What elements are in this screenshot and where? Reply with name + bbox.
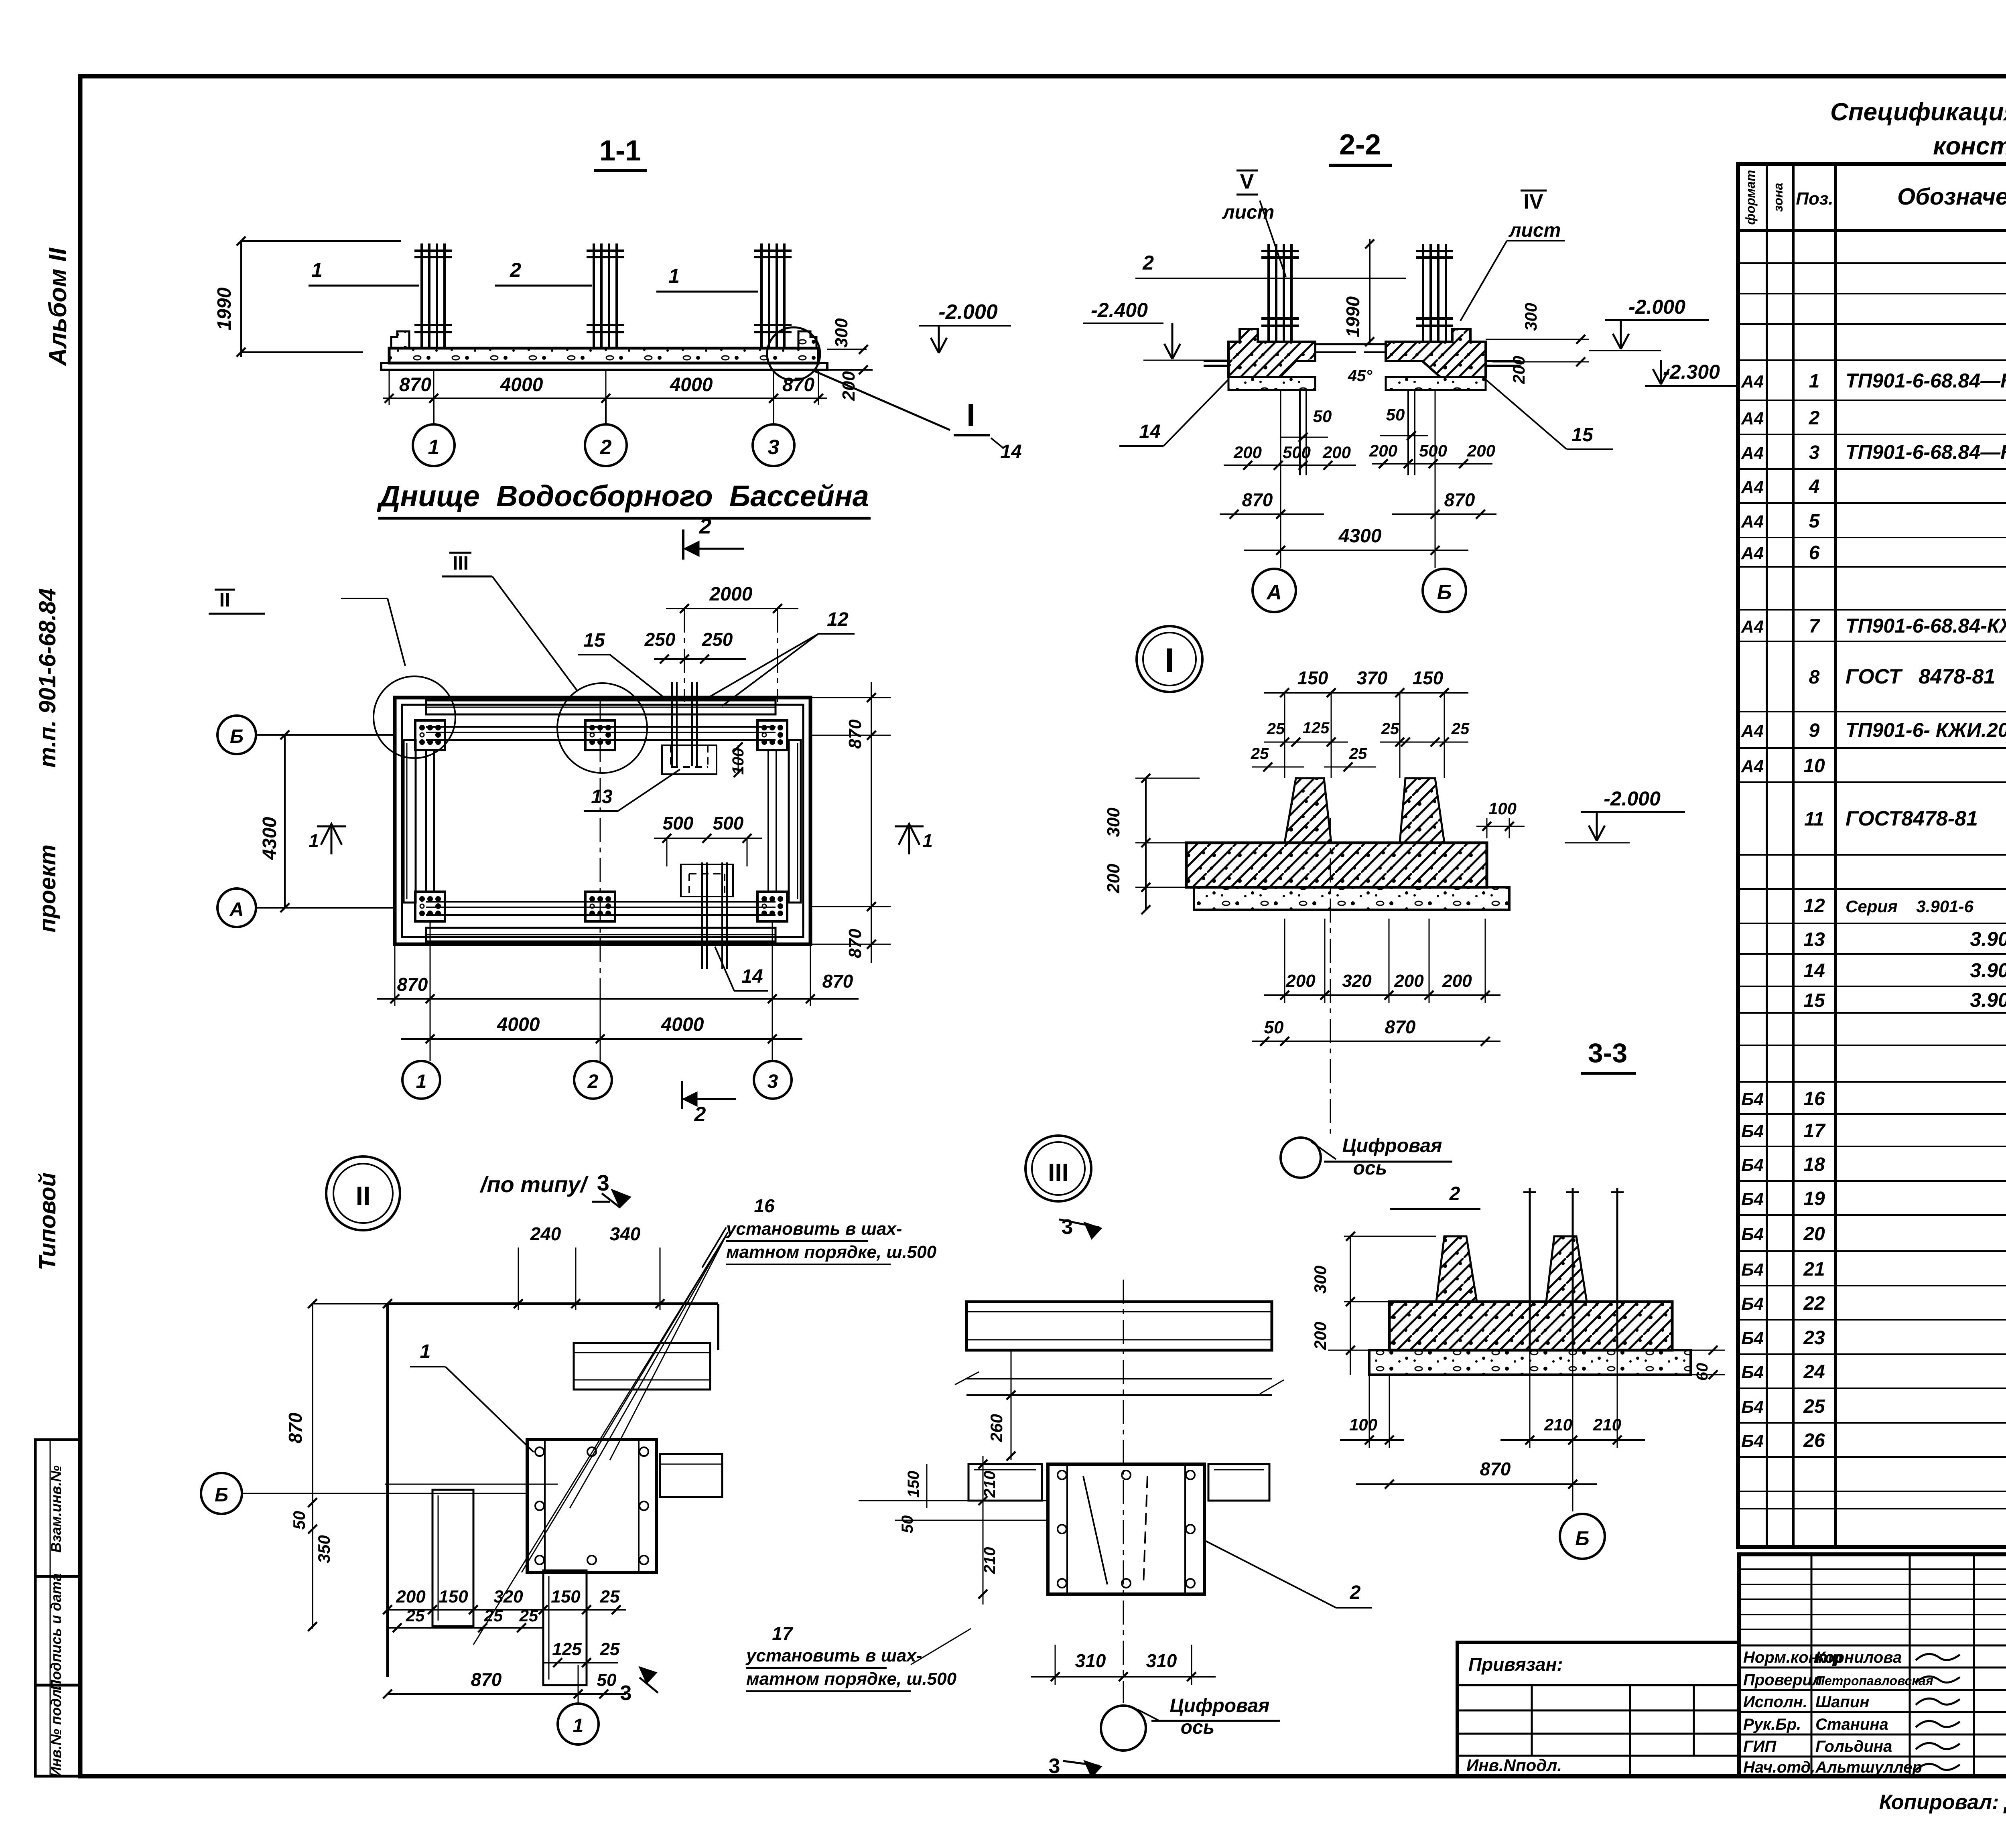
svg-text:А4: А4 (1741, 512, 1764, 531)
svg-text:18: 18 (1803, 1154, 1825, 1175)
plan pad axis1-A (415, 892, 445, 921)
plan patrubok bottom dashed box (681, 864, 733, 897)
detail II column square (527, 1440, 656, 1572)
svg-text:320: 320 (1342, 971, 1372, 991)
section 2-2 anchor dowels left (1299, 390, 1301, 475)
svg-text:13: 13 (591, 786, 613, 807)
svg-text:ТП901-6- КЖИ.2010-01: ТП901-6- КЖИ.2010-01 (1846, 719, 2006, 741)
svg-text:установить в шах-: установить в шах- (725, 1219, 902, 1239)
svg-text:9: 9 (1809, 720, 1820, 741)
svg-text:проект: проект (35, 844, 61, 933)
rsec right trapezoid (1546, 1236, 1587, 1302)
svg-text:Обозначение: Обозначение (1897, 184, 2006, 210)
svg-text:А4: А4 (1741, 757, 1764, 776)
svg-text:ТП901-6-68.84—КЖИ.2100: ТП901-6-68.84—КЖИ.2100 (1846, 369, 2006, 392)
svg-text:10: 10 (1803, 755, 1825, 777)
plan section arrows 1 (321, 824, 342, 845)
svg-text:3.901-6: 3.901-6 (1970, 928, 2006, 950)
potipu bottom dims 310 310 (1031, 1676, 1216, 1678)
svg-text:12: 12 (827, 609, 849, 630)
section 1-1 axis circle 3 (773, 398, 774, 424)
svg-text:370: 370 (1357, 667, 1388, 688)
detail II axis circle 1 (578, 1665, 579, 1703)
svg-text:210: 210 (1544, 1415, 1572, 1434)
svg-text:12: 12 (1803, 895, 1825, 917)
svg-text:1: 1 (309, 830, 319, 851)
plan right wall slot (789, 740, 801, 903)
svg-text:6: 6 (1809, 542, 1820, 564)
svg-text:21: 21 (1803, 1259, 1825, 1280)
rsec left dims 300 200 (1344, 1236, 1436, 1237)
svg-text:Цифровая: Цифровая (1170, 1695, 1270, 1716)
svg-text:А: А (229, 899, 244, 920)
svg-text:Б4: Б4 (1741, 1225, 1764, 1244)
svg-text:I: I (1165, 641, 1174, 680)
svg-text:Днище Водосборного Бассейна: Днище Водосборного Бассейна (376, 479, 869, 513)
plan patrubok bottom pipes (701, 862, 703, 969)
detail I left dims 300 200 (1135, 778, 1200, 779)
plan patrubok axis dashdot (684, 609, 685, 702)
section 2-2 rebar cluster B (1422, 244, 1424, 342)
detail I dim 50 870 (1252, 1041, 1500, 1042)
potipu wall band (966, 1302, 1272, 1350)
svg-text:1: 1 (573, 1715, 584, 1736)
section 1-1 base plate (381, 363, 827, 370)
svg-text:ГОСТ 8478-81: ГОСТ 8478-81 (1846, 665, 1995, 688)
svg-text:Станина: Станина (1815, 1716, 1888, 1733)
svg-text:150: 150 (1297, 667, 1328, 688)
svg-text:4: 4 (1809, 476, 1820, 497)
spec table header row (1738, 229, 2006, 232)
svg-text:1: 1 (420, 1341, 431, 1362)
svg-text:3: 3 (1049, 1755, 1060, 1778)
detail II top dim line (313, 1303, 718, 1304)
svg-text:1: 1 (922, 830, 933, 851)
svg-text:2: 2 (1142, 252, 1154, 274)
section 2-2 connecting slab lines (1315, 343, 1386, 345)
svg-text:ТП901-6-68.84—КЖИ-2200: ТП901-6-68.84—КЖИ-2200 (1846, 441, 2006, 463)
section 1-1 detail circle I (767, 327, 820, 380)
detail II bar leader fan (473, 1232, 728, 1645)
svg-text:200: 200 (1467, 441, 1495, 460)
svg-text:125: 125 (1303, 719, 1330, 737)
plan outer rect (395, 698, 810, 944)
svg-text:870: 870 (822, 971, 853, 992)
svg-text:Исполн.: Исполн. (1743, 1693, 1807, 1711)
svg-text:Б: Б (1437, 581, 1452, 604)
svg-text:310: 310 (1146, 1650, 1177, 1671)
svg-text:870: 870 (845, 929, 865, 958)
svg-text:А: А (1266, 581, 1282, 604)
svg-text:870: 870 (471, 1669, 502, 1690)
svg-text:25: 25 (600, 1587, 620, 1607)
svg-text:Нач.отд.: Нач.отд. (1743, 1759, 1815, 1776)
svg-text:17: 17 (1803, 1120, 1826, 1142)
svg-text:Б: Б (215, 1485, 228, 1506)
svg-text:Б4: Б4 (1741, 1329, 1764, 1348)
svg-text:Инв.Nподл.: Инв.Nподл. (1466, 1756, 1562, 1775)
svg-text:25: 25 (1803, 1396, 1825, 1417)
svg-text:3.901-6: 3.901-6 (1970, 959, 2006, 982)
svg-text:870: 870 (1444, 489, 1475, 510)
svg-text:4300: 4300 (1338, 525, 1382, 547)
detail II left dim 870 (312, 1304, 313, 1629)
spec table column lines (1766, 164, 1768, 1547)
section 1-1 right curb (798, 331, 816, 348)
svg-text:200: 200 (1104, 864, 1123, 894)
detail I center line (1330, 818, 1331, 1139)
svg-text:240: 240 (530, 1223, 561, 1244)
svg-text:50: 50 (1264, 1018, 1284, 1037)
svg-text:Б4: Б4 (1741, 1089, 1764, 1109)
svg-text:870: 870 (782, 374, 814, 396)
svg-text:зона: зона (1771, 183, 1785, 212)
svg-text:250: 250 (644, 629, 676, 650)
svg-text:100: 100 (1488, 799, 1517, 818)
svg-text:-2.300: -2.300 (1663, 361, 1720, 383)
svg-text:Б4: Б4 (1741, 1431, 1764, 1451)
potipu lower band (966, 1378, 1272, 1379)
svg-text:1: 1 (668, 265, 680, 287)
svg-text:200: 200 (1442, 971, 1472, 991)
spec table row lines (1738, 262, 2006, 264)
section 2-2 dim 1990 (1369, 239, 1370, 345)
svg-text:1: 1 (428, 436, 440, 459)
section 2-2 axis circle A (1280, 390, 1281, 568)
svg-text:Цифровая: Цифровая (1342, 1135, 1442, 1156)
svg-text:-2.400: -2.400 (1091, 299, 1148, 321)
detail II bottom dim 870 50 (388, 1693, 626, 1695)
section 1-1 slab (389, 348, 818, 363)
detail II wall corner outline (386, 1304, 389, 1677)
svg-text:14: 14 (1803, 960, 1825, 982)
rsec dims 100 210 210 (1340, 1439, 1404, 1441)
svg-text:Корнилова: Корнилова (1815, 1649, 1902, 1666)
plan big circle top-middle (557, 683, 647, 773)
plan pad axis2-A (585, 892, 615, 921)
section 2-2 dims 200 500 200 (1224, 465, 1356, 466)
svg-text:300: 300 (832, 318, 851, 348)
svg-text:Копировал: Доценко: Копировал: Доценко (1879, 1791, 2006, 1814)
plan column lines axis3 (767, 751, 769, 891)
title block signatures scribbles (1916, 1654, 1960, 1660)
svg-text:4300: 4300 (259, 817, 280, 860)
section 2-2 right foundation block (1386, 329, 1486, 377)
svg-text:III: III (453, 553, 469, 574)
svg-text:IV: IV (1523, 190, 1543, 213)
svg-text:200: 200 (1233, 443, 1262, 462)
plan bottom beam rect (426, 928, 776, 941)
svg-text:870: 870 (285, 1412, 306, 1443)
svg-text:2: 2 (1449, 1183, 1460, 1205)
svg-text:т.п. 901-6-68.84: т.п. 901-6-68.84 (35, 588, 61, 767)
svg-text:II: II (219, 590, 230, 611)
svg-text:2: 2 (600, 436, 612, 459)
svg-text:4000: 4000 (497, 1014, 540, 1035)
svg-text:50: 50 (1386, 405, 1405, 424)
svg-text:Альбом II: Альбом II (44, 247, 72, 367)
section 2-2 axis circle B (1435, 390, 1436, 568)
svg-text:А4: А4 (1741, 372, 1764, 392)
svg-text:200: 200 (1369, 441, 1397, 460)
svg-text:Б: Б (230, 726, 244, 747)
svg-text:200: 200 (396, 1587, 426, 1607)
svg-text:11: 11 (1804, 809, 1824, 830)
detail II beam band right (574, 1343, 710, 1390)
plan inner rect (402, 705, 803, 937)
detail I subbase (1194, 887, 1509, 910)
plan beam lines row B (426, 726, 776, 728)
section 1-1 left curb (391, 331, 409, 348)
title block left mini rows (1739, 1568, 2006, 1570)
svg-text:2: 2 (510, 259, 521, 281)
svg-text:Петропавловская: Петропавловская (1815, 1674, 1933, 1688)
plan bottom dim 870/4000/4000/870 (377, 998, 859, 1000)
svg-text:2: 2 (1809, 408, 1820, 429)
plan dims 500 500 (654, 838, 762, 839)
svg-text:500: 500 (1283, 443, 1311, 462)
detail II axis B line (242, 1493, 526, 1494)
svg-text:50: 50 (290, 1511, 309, 1530)
svg-text:Б4: Б4 (1741, 1122, 1764, 1141)
svg-text:15: 15 (1803, 990, 1825, 1011)
svg-text:4000: 4000 (661, 1014, 704, 1035)
svg-text:А4: А4 (1741, 617, 1764, 637)
plan big circle top-left (374, 676, 455, 758)
svg-text:конструкции днища.: конструкции днища. (1933, 132, 2006, 160)
svg-text:Типовой: Типовой (35, 1172, 61, 1270)
svg-text:14: 14 (1139, 421, 1160, 442)
title block outer (1739, 1554, 2006, 1776)
plan patrubok top pipes (671, 682, 673, 766)
svg-text:лист: лист (1509, 220, 1561, 241)
detail I bottom dims (1264, 994, 1500, 996)
svg-text:3: 3 (1062, 1215, 1073, 1239)
svg-text:300: 300 (1311, 1266, 1330, 1294)
svg-text:2000: 2000 (709, 584, 753, 605)
svg-text:22: 22 (1803, 1293, 1825, 1314)
detail I circle (1137, 626, 1202, 692)
plan pad axis3-A (757, 892, 787, 921)
svg-text:210: 210 (981, 1547, 999, 1574)
svg-text:870: 870 (1242, 489, 1273, 510)
svg-text:200: 200 (1509, 356, 1528, 384)
potipu column square (1048, 1464, 1204, 1594)
detail III circle marker (1025, 1136, 1091, 1201)
title block signature rows (1739, 1645, 2006, 1647)
svg-text:300: 300 (1104, 807, 1123, 837)
svg-text:25: 25 (1381, 720, 1399, 738)
svg-text:26: 26 (1803, 1430, 1825, 1451)
plan pad axis2-B (585, 720, 615, 750)
svg-text:ТП901-6-68.84-КЖИ.2010: ТП901-6-68.84-КЖИ.2010 (1846, 615, 2006, 637)
section 1-1 bottom dim line (383, 398, 827, 399)
svg-text:150: 150 (439, 1587, 468, 1607)
svg-text:3: 3 (767, 1071, 778, 1092)
detail I small dims 25 125 (1264, 742, 1348, 743)
svg-text:4000: 4000 (670, 374, 713, 396)
svg-text:50: 50 (1313, 407, 1332, 426)
svg-text:23: 23 (1803, 1327, 1825, 1349)
svg-text:3: 3 (1809, 442, 1820, 463)
rsec rebars (1529, 1188, 1531, 1350)
svg-text:870: 870 (399, 374, 431, 396)
svg-text:340: 340 (610, 1223, 641, 1244)
svg-text:матном порядке, ш.500: матном порядке, ш.500 (746, 1669, 957, 1689)
svg-text:III: III (1048, 1159, 1069, 1187)
svg-text:7: 7 (1809, 616, 1821, 637)
svg-text:1990: 1990 (1342, 296, 1363, 337)
plan pad axis3-B (757, 720, 787, 750)
svg-text:3: 3 (768, 436, 780, 459)
svg-text:3: 3 (620, 1682, 632, 1705)
svg-text:/по типу/: /по типу/ (479, 1172, 589, 1197)
plan left wall slot (404, 740, 416, 903)
svg-text:25: 25 (1251, 745, 1269, 763)
svg-text:3-3: 3-3 (1588, 1038, 1627, 1068)
svg-text:16: 16 (1803, 1088, 1825, 1110)
plan right dim 870 870 (871, 682, 872, 963)
svg-text:500: 500 (663, 813, 694, 834)
section 2-2 anchor dowels right (1407, 390, 1409, 475)
svg-text:50: 50 (597, 1670, 617, 1690)
plan axis circle A (217, 889, 256, 927)
svg-text:25: 25 (484, 1606, 503, 1625)
svg-text:1: 1 (1809, 371, 1820, 392)
svg-text:25: 25 (1451, 720, 1470, 738)
section 2-2 dim 4300 (1244, 550, 1468, 551)
section 1-1 rebar cluster axis 1 (420, 243, 423, 348)
section 1-1 axis circle 1 (433, 398, 434, 424)
detail II small bar right (660, 1454, 722, 1497)
svg-text:Проверил: Проверил (1743, 1671, 1822, 1689)
plan top beam rect (426, 700, 776, 714)
privyazan block (1457, 1642, 1739, 1776)
svg-text:125: 125 (552, 1639, 582, 1659)
svg-text:15: 15 (1572, 424, 1594, 446)
svg-text:500: 500 (713, 813, 744, 834)
svg-text:2-2: 2-2 (1339, 129, 1381, 161)
detail II bottom dim rows (388, 1609, 626, 1611)
detail I left trapezoid (1285, 778, 1331, 843)
rsec axis circle B (1572, 1448, 1574, 1511)
plan axis circle B (217, 716, 256, 754)
svg-text:Спецификация монолитных: Спецификация монолитных элементов (1830, 98, 2006, 126)
svg-text:1990: 1990 (214, 287, 235, 330)
rsec left trapezoid (1436, 1236, 1477, 1302)
spec table outer border (1738, 164, 2006, 1547)
section 1-1 axis circle 2 (605, 398, 607, 424)
svg-text:формат: формат (1743, 170, 1758, 225)
svg-text:150: 150 (551, 1587, 581, 1607)
section 1-1 vertical dim 1990 (240, 241, 242, 357)
rsec slab (1389, 1302, 1672, 1350)
svg-text:Рук.Бр.: Рук.Бр. (1743, 1716, 1801, 1733)
svg-text:А4: А4 (1741, 409, 1764, 428)
svg-text:Привязан:: Привязан: (1468, 1654, 1563, 1675)
svg-text:3.901-6: 3.901-6 (1970, 989, 2006, 1011)
svg-text:310: 310 (1075, 1650, 1106, 1671)
svg-text:А4: А4 (1741, 477, 1764, 497)
section 2-2 dims 870 870 (1220, 513, 1324, 515)
svg-text:Б4: Б4 (1741, 1189, 1764, 1209)
svg-text:ГИП: ГИП (1743, 1738, 1777, 1755)
detail I top dims 150 370 150 (1264, 692, 1468, 694)
svg-text:200: 200 (1322, 443, 1351, 462)
svg-text:1-1: 1-1 (599, 135, 641, 167)
svg-text:2: 2 (694, 1103, 706, 1126)
plan center axis2 dashdot (600, 698, 601, 991)
plan axis circle 3 (772, 922, 773, 1061)
svg-text:4000: 4000 (500, 374, 543, 396)
svg-text:200: 200 (1311, 1322, 1330, 1350)
section 2-2 rebar cluster A (1267, 244, 1270, 342)
svg-text:V: V (1240, 170, 1254, 193)
svg-text:19: 19 (1803, 1188, 1825, 1209)
detail II axis circle B (201, 1473, 242, 1514)
svg-text:Б4: Б4 (1741, 1155, 1764, 1175)
svg-text:Б4: Б4 (1741, 1260, 1764, 1280)
svg-text:1: 1 (311, 259, 323, 281)
svg-text:1: 1 (416, 1071, 427, 1092)
svg-text:ГОСТ8478-81: ГОСТ8478-81 (1846, 807, 1978, 830)
svg-text:Б: Б (1575, 1527, 1589, 1550)
left margin stamp strip (35, 1440, 80, 1776)
svg-text:200: 200 (1285, 971, 1316, 991)
svg-text:2: 2 (1350, 1582, 1361, 1603)
svg-text:установить в шах-: установить в шах- (745, 1646, 922, 1665)
svg-text:13: 13 (1803, 929, 1825, 950)
title block left column lines (1811, 1554, 1813, 1776)
svg-text:А4: А4 (1741, 721, 1764, 741)
svg-text:Гольдина: Гольдина (1815, 1738, 1892, 1755)
svg-text:210: 210 (981, 1471, 999, 1498)
detail I dim 100 (1486, 818, 1488, 838)
section 2-2 left foundation block (1228, 329, 1315, 377)
svg-text:870: 870 (845, 719, 865, 749)
svg-text:320: 320 (493, 1587, 523, 1607)
svg-text:8: 8 (1809, 667, 1820, 688)
section 2-2 formwork bars left (1204, 360, 1228, 362)
svg-text:матном порядке, ш.500: матном порядке, ш.500 (726, 1242, 937, 1262)
svg-text:25: 25 (519, 1606, 538, 1625)
detail II bottom slot (543, 1570, 587, 1685)
svg-text:5: 5 (1809, 511, 1820, 532)
svg-text:200: 200 (1394, 971, 1424, 991)
svg-text:45°: 45° (1348, 367, 1373, 385)
plan axis circle 1 (430, 922, 431, 1061)
section 1-1 rebar cluster axis 3 (760, 243, 763, 348)
svg-text:2: 2 (699, 514, 711, 538)
svg-text:25: 25 (1349, 745, 1367, 763)
svg-text:260: 260 (987, 1414, 1006, 1442)
svg-text:870: 870 (1480, 1459, 1511, 1479)
svg-text:2: 2 (587, 1071, 599, 1092)
svg-text:870: 870 (1385, 1016, 1416, 1037)
svg-text:А4: А4 (1741, 443, 1764, 463)
svg-text:50: 50 (899, 1515, 916, 1534)
svg-text:Шапин: Шапин (1815, 1693, 1869, 1711)
potipu center dashdot (1123, 1280, 1124, 1703)
svg-text:Альтшуллер: Альтшуллер (1815, 1759, 1922, 1776)
detail I tsifrovaya os (1281, 1138, 1321, 1178)
svg-text:300: 300 (1521, 303, 1540, 331)
svg-text:870: 870 (397, 974, 428, 995)
svg-text:150: 150 (1413, 667, 1444, 688)
svg-text:Б4: Б4 (1741, 1294, 1764, 1314)
svg-text:20: 20 (1803, 1223, 1825, 1245)
svg-text:14: 14 (741, 966, 763, 987)
